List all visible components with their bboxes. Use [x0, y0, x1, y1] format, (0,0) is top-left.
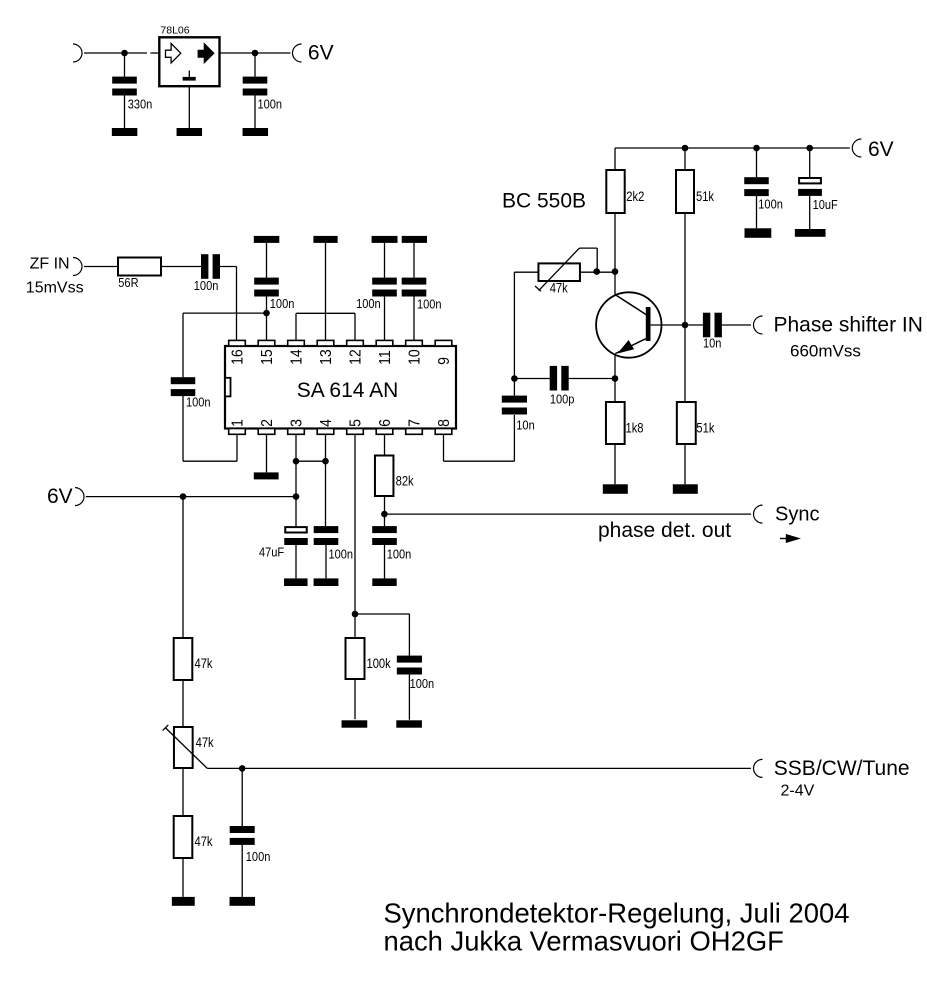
svg-text:47k: 47k: [195, 656, 214, 671]
svg-text:3: 3: [287, 419, 305, 427]
svg-text:11: 11: [376, 350, 394, 365]
svg-text:6V: 6V: [868, 138, 894, 161]
svg-text:9: 9: [435, 357, 453, 365]
svg-text:82k: 82k: [396, 473, 415, 488]
svg-text:10n: 10n: [703, 335, 721, 350]
svg-text:13: 13: [317, 349, 335, 365]
svg-text:BC 550B: BC 550B: [502, 189, 586, 212]
svg-text:100n: 100n: [387, 547, 412, 562]
svg-text:10n: 10n: [516, 417, 534, 432]
svg-text:47k: 47k: [196, 735, 215, 750]
svg-text:phase det. out: phase det. out: [598, 519, 731, 542]
svg-text:100n: 100n: [356, 296, 381, 311]
svg-text:2: 2: [258, 419, 276, 427]
svg-text:56R: 56R: [118, 275, 139, 290]
svg-text:ZF IN: ZF IN: [30, 255, 70, 272]
svg-text:SA 614 AN: SA 614 AN: [297, 379, 399, 402]
svg-text:8: 8: [435, 419, 453, 427]
svg-text:10uF: 10uF: [813, 197, 838, 212]
svg-text:100n: 100n: [410, 676, 435, 691]
svg-text:47uF: 47uF: [259, 545, 284, 560]
svg-text:15: 15: [258, 349, 276, 365]
svg-text:10: 10: [405, 349, 423, 365]
svg-text:51k: 51k: [696, 189, 715, 204]
svg-text:100n: 100n: [329, 547, 354, 562]
svg-text:SSB/CW/Tune: SSB/CW/Tune: [774, 757, 910, 780]
svg-text:100n: 100n: [186, 395, 211, 410]
svg-text:6: 6: [376, 419, 394, 427]
svg-text:1: 1: [228, 419, 246, 427]
svg-text:100n: 100n: [270, 296, 295, 311]
svg-text:16: 16: [228, 349, 246, 365]
svg-text:6V: 6V: [308, 42, 334, 65]
svg-text:Phase shifter IN: Phase shifter IN: [774, 314, 923, 337]
svg-text:5: 5: [346, 419, 364, 427]
svg-text:100n: 100n: [258, 97, 283, 112]
svg-text:660mVss: 660mVss: [790, 341, 861, 360]
svg-text:100n: 100n: [417, 297, 442, 312]
svg-text:14: 14: [287, 349, 305, 365]
svg-text:2k2: 2k2: [626, 189, 644, 204]
svg-text:100p: 100p: [550, 392, 575, 407]
svg-text:47k: 47k: [550, 280, 569, 295]
svg-text:nach Jukka Vermasvuori OH2GF: nach Jukka Vermasvuori OH2GF: [384, 926, 784, 957]
svg-text:100n: 100n: [758, 196, 783, 211]
svg-text:100n: 100n: [194, 278, 219, 293]
svg-text:100k: 100k: [367, 656, 392, 671]
svg-text:Synchrondetektor-Regelung, Jul: Synchrondetektor-Regelung, Juli 2004: [384, 898, 850, 929]
svg-text:7: 7: [405, 419, 423, 427]
svg-text:51k: 51k: [696, 420, 715, 435]
svg-text:4: 4: [317, 419, 335, 427]
svg-text:1k8: 1k8: [626, 420, 644, 435]
svg-text:2-4V: 2-4V: [781, 783, 815, 800]
svg-text:6V: 6V: [47, 485, 73, 508]
svg-text:100n: 100n: [246, 849, 271, 864]
svg-text:15mVss: 15mVss: [26, 280, 84, 297]
svg-text:330n: 330n: [128, 97, 153, 112]
svg-text:78L06: 78L06: [160, 25, 189, 37]
svg-text:47k: 47k: [195, 834, 214, 849]
svg-text:Sync: Sync: [775, 504, 819, 526]
svg-text:12: 12: [346, 349, 364, 365]
